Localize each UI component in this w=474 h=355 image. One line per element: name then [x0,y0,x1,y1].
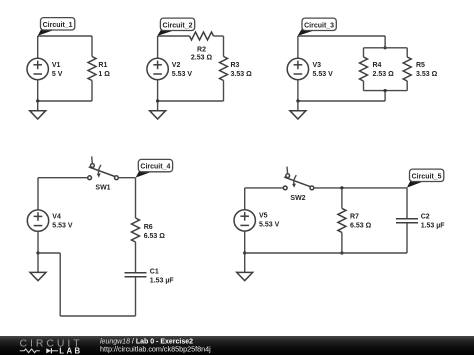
ground circuit1 [30,111,46,119]
svg-text:3.53 Ω: 3.53 Ω [416,71,438,78]
wire circuit3 left [297,36,299,58]
ground circuit2 [150,111,166,119]
wire circuit1 right lower [91,81,93,102]
wire circuit2 top-right [214,35,224,37]
wire circuit3 R5 lower lead [406,81,408,91]
wire circuit2 top-left [158,35,190,37]
node junction circuit5 left [243,251,246,254]
wire circuit1 top [38,35,92,37]
wire circuit3 bottom [298,100,385,102]
wire circuit3 R4 lower lead [363,81,365,91]
wire circuit5 R7 lower lead [341,232,343,253]
voltage source V2 [147,58,168,79]
footer bar [0,336,474,355]
node junction circuit3 left [296,99,299,102]
node junction circuit3 bottom [384,89,387,92]
resistor R6 [132,218,140,242]
wire circuit4 below C1 [135,277,137,316]
wire circuit3 below V3 [297,80,299,101]
svg-text:Circuit_4: Circuit_4 [140,164,170,171]
resistor R1 [88,57,96,81]
callout Circuit_4 [136,159,173,177]
svg-text:V1: V1 [52,62,61,69]
wire circuit3 ground stub [297,101,299,111]
capacitor C1 [125,273,147,277]
logo waveform [20,348,58,353]
wire circuit5 R7 upper lead [341,188,343,209]
label R7 value [350,213,372,229]
label V5 value [259,213,280,229]
node junction circuit5 R7 top [340,186,343,189]
svg-text:5.53 V: 5.53 V [259,222,280,229]
ground circuit4 [30,272,46,280]
wire circuit2 bottom [158,100,224,102]
resistor R3 [220,57,228,81]
svg-text:C1: C1 [150,268,159,275]
label V2 value [172,62,193,78]
wire circuit3 bottom bridge [364,90,408,92]
switch SW1 [88,156,119,179]
voltage source V1 [27,58,48,79]
wire circuit5 C2 lower lead [406,223,408,253]
wire circuit1 bottom [38,100,92,102]
svg-text:6.53 Ω: 6.53 Ω [350,222,372,229]
node junction circuit1 [36,99,39,102]
voltage source V5 [234,210,255,231]
label C2 value [421,213,446,229]
wire circuit3 top drop [384,36,386,48]
wire circuit3 top [298,35,385,37]
svg-text:R5: R5 [416,62,425,69]
wire circuit3 R4 upper lead [363,48,365,57]
switch SW2 [283,167,313,190]
wire circuit4 left [37,178,39,210]
ground circuit3 [290,111,306,119]
node junction circuit3 top [384,46,387,49]
wire circuit2 below V2 [157,80,159,101]
label R3 value [231,62,253,78]
wire circuit4 bottom [60,315,135,317]
wire circuit5 C2 upper lead [406,188,408,219]
wire circuit4 below V4 [37,231,39,253]
wire circuit4 ground stub [37,253,39,272]
svg-text:R1: R1 [98,62,107,69]
wire circuit5 top-right [314,187,407,189]
svg-text:2.53 Ω: 2.53 Ω [191,55,213,62]
resistor R7 [338,208,346,232]
svg-text:2.53 Ω: 2.53 Ω [373,71,395,78]
label C1 value [150,268,175,284]
wire circuit2 left [157,36,159,58]
svg-text:Circuit_5: Circuit_5 [412,173,442,180]
node junction circuit5 R7 bottom [340,251,343,254]
svg-text:V3: V3 [313,62,322,69]
label R6 value [144,224,166,240]
label R5 value [416,62,438,78]
svg-text:Circuit_3: Circuit_3 [304,22,334,29]
resistor R2 [190,32,214,40]
svg-text:1.53 µF: 1.53 µF [421,222,446,229]
wire circuit4 top-left [38,177,88,179]
svg-text:R6: R6 [144,224,153,231]
label V1 value [52,62,63,78]
wire circuit2 right upper [223,36,225,57]
svg-text:6.53 Ω: 6.53 Ω [144,233,166,240]
wire circuit4 R6 upper lead [135,178,137,218]
capacitor C2 [396,219,418,223]
voltage source V4 [27,210,48,231]
label R4 value [373,62,395,78]
svg-text:V5: V5 [259,213,268,220]
wire circuit4 R6-C1 lead [135,242,137,273]
wire circuit3 R5 upper lead [406,48,408,57]
svg-text:SW1: SW1 [95,185,110,192]
svg-text:R2: R2 [197,47,206,54]
svg-text:R4: R4 [373,62,382,69]
svg-text:V2: V2 [172,62,181,69]
label R2 value [191,47,213,62]
label V4 value [52,213,73,229]
callout Circuit_1 [38,18,75,36]
svg-text:3.53 Ω: 3.53 Ω [231,71,253,78]
callout Circuit_2 [157,18,194,36]
wire circuit4 return top [38,252,60,254]
wire circuit5 bottom [245,252,407,254]
svg-text:R3: R3 [231,62,240,69]
svg-text:5.53 V: 5.53 V [172,71,193,78]
label R1 value [98,62,110,78]
wire circuit1 right upper [91,36,93,57]
wire circuit1 below V1 [37,80,39,101]
svg-text:LAB: LAB [59,347,82,355]
callout Circuit_5 [407,169,444,188]
wire circuit5 below V5 [244,231,246,253]
wire circuit5 left [244,188,246,210]
wire circuit5 top-left [245,187,284,189]
svg-text:SW2: SW2 [290,195,305,202]
wire circuit4 top-right [118,177,135,179]
voltage source V3 [287,58,308,79]
wire circuit4 return riser [59,253,61,316]
svg-text:http://circuitlab.com/ck85bp25: http://circuitlab.com/ck85bp25f8n4j [100,344,211,353]
ground circuit5 [237,272,253,280]
svg-text:5.53 V: 5.53 V [52,222,73,229]
wire circuit1 ground stub [37,101,39,111]
svg-text:R7: R7 [350,213,359,220]
resistor R4 [360,57,368,81]
wire circuit1 left [37,36,39,58]
svg-text:5 V: 5 V [52,71,63,78]
wire circuit3 bottom drop [384,91,386,101]
callout Circuit_3 [298,18,337,36]
label V3 value [313,62,334,78]
svg-text:V4: V4 [52,213,61,220]
node junction circuit2 [156,99,159,102]
svg-text:1.53 µF: 1.53 µF [150,277,175,284]
svg-text:1 Ω: 1 Ω [98,71,110,78]
wire circuit2 right lower [223,81,225,102]
wire circuit3 top bridge [364,47,408,49]
resistor R5 [403,57,411,81]
svg-text:C2: C2 [421,213,430,220]
svg-text:Circuit_2: Circuit_2 [163,22,193,29]
svg-text:5.53 V: 5.53 V [313,71,334,78]
svg-text:Circuit_1: Circuit_1 [43,22,73,29]
node junction circuit4 [36,251,39,254]
wire circuit5 ground stub [244,253,246,272]
wire circuit2 ground stub [157,101,159,111]
